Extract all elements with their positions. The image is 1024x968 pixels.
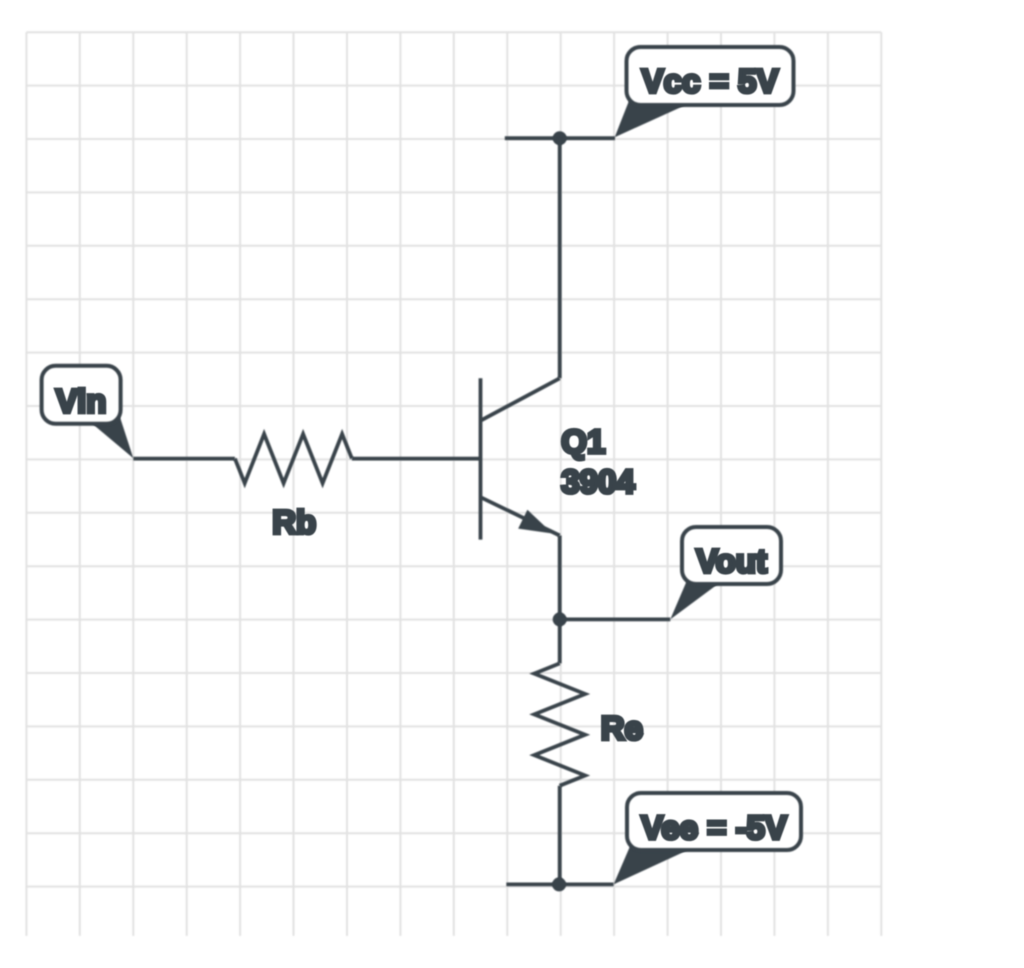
svg-text:Vcc = 5V: Vcc = 5V <box>642 62 779 99</box>
label Re <box>601 710 643 747</box>
resistor Re <box>534 663 585 785</box>
node: Vee junction dot <box>552 877 566 891</box>
wire: base left segment <box>133 457 235 461</box>
svg-text:Vin: Vin <box>56 383 107 420</box>
svg-text:Vout: Vout <box>696 543 767 580</box>
resistor Rb <box>235 434 352 483</box>
wire: base right segment <box>352 457 481 461</box>
node flag Vee = -5V <box>614 793 801 884</box>
node: Vcc junction dot <box>553 131 567 145</box>
wire: collector vertical <box>558 138 562 378</box>
wire: Vee rail <box>506 883 613 887</box>
node: Vout junction dot <box>553 612 567 626</box>
node flag Vout <box>670 527 781 619</box>
svg-text:3904: 3904 <box>561 463 635 500</box>
node flag Vcc = 5V <box>615 47 794 137</box>
wire: Vcc rail <box>505 136 615 140</box>
svg-text:Vee = -5V: Vee = -5V <box>641 809 787 846</box>
label Rb <box>272 504 316 541</box>
svg-text:Re: Re <box>601 710 643 747</box>
svg-text:Rb: Rb <box>272 504 316 541</box>
label Q1 3904 <box>561 423 635 500</box>
node flag Vin <box>42 366 134 458</box>
wire: emitter vertical <box>558 536 562 664</box>
svg-text:Q1: Q1 <box>561 423 605 460</box>
wire: Vout stub <box>560 618 671 622</box>
transistor Q1 <box>481 378 560 539</box>
wire: Re to Vee rail <box>558 786 562 885</box>
